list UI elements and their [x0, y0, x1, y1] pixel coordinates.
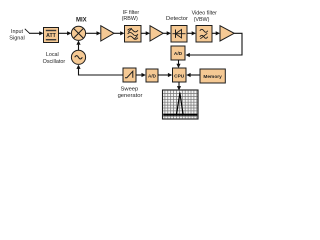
- wire amp1 to IF filter: [114, 32, 121, 34]
- svg-text:Detector: Detector: [166, 16, 188, 22]
- svg-text:CPU: CPU: [174, 73, 185, 79]
- wire mixer to amp1: [86, 32, 98, 34]
- display screen: [163, 90, 199, 119]
- trace spike: [177, 93, 184, 114]
- svg-text:ATT: ATT: [46, 33, 57, 39]
- sweep generator: [123, 68, 136, 82]
- mixer circle: [71, 26, 85, 40]
- wire A/D down to CPU: [178, 60, 180, 65]
- svg-text:IF filter: IF filter: [123, 10, 140, 16]
- wire A/D sweep to CPU: [158, 74, 169, 76]
- A/D converter (video): [171, 46, 185, 60]
- input lead-in tick: [25, 29, 30, 33]
- svg-text:Sweep: Sweep: [121, 87, 139, 93]
- wire video filter to amp3: [212, 32, 217, 34]
- wire local oscillator to mixer: [78, 45, 80, 51]
- wire sweep gen to A/D: [136, 74, 142, 76]
- amplifier 2: [150, 26, 163, 41]
- wire amp2 to detector: [163, 32, 167, 34]
- CPU: [173, 68, 187, 82]
- svg-text:Signal: Signal: [9, 35, 25, 41]
- memory: [200, 69, 225, 83]
- label Sweep generator: [118, 87, 143, 99]
- label Video filter (VBW): [192, 11, 218, 23]
- svg-text:Oscillator: Oscillator: [43, 59, 66, 65]
- label Input Signal: [9, 29, 25, 41]
- svg-text:Video filter: Video filter: [192, 11, 218, 17]
- label IF filter (RBW): [122, 10, 140, 22]
- attenuator ATT: [44, 28, 59, 43]
- amplifier 3: [220, 26, 234, 41]
- amplifier 1: [101, 26, 114, 41]
- IF filter (bandpass): [125, 26, 142, 43]
- local oscillator: [71, 50, 85, 64]
- label Local Oscillator: [43, 52, 66, 65]
- wire CPU to display: [178, 82, 180, 87]
- detector (diode): [171, 26, 187, 43]
- wire amp3 feedback to A/D: [189, 33, 242, 55]
- svg-text:Memory: Memory: [203, 74, 222, 80]
- wire ATT to mixer: [59, 32, 69, 34]
- svg-text:(VBW): (VBW): [194, 17, 210, 23]
- wire IF filter to amp2: [141, 32, 147, 34]
- video filter (lowpass): [196, 26, 212, 43]
- svg-text:A/D: A/D: [174, 51, 183, 57]
- wire sweep gen to local oscillator: [79, 68, 124, 75]
- svg-text:generator: generator: [118, 93, 143, 99]
- svg-text:Input: Input: [11, 29, 23, 35]
- A/D converter (sweep): [146, 69, 158, 82]
- wire input to ATT: [29, 32, 40, 34]
- svg-text:MIX: MIX: [76, 17, 87, 23]
- wire detector to video filter: [187, 32, 193, 34]
- svg-text:(RBW): (RBW): [122, 16, 138, 22]
- trace baseline: [163, 114, 197, 116]
- svg-text:A/D: A/D: [148, 74, 157, 79]
- svg-text:Local: Local: [46, 52, 59, 58]
- wire Memory to CPU: [190, 74, 200, 76]
